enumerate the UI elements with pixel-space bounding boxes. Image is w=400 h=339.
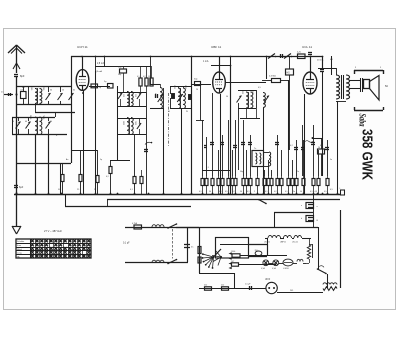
svg-text:b: b	[301, 218, 302, 220]
svg-text:UBF11: UBF11	[280, 242, 286, 244]
svg-text:5n: 5n	[330, 159, 332, 161]
svg-text:a: a	[301, 205, 302, 207]
svg-text:0,1: 0,1	[130, 189, 133, 191]
svg-text:6k: 6k	[73, 90, 75, 92]
svg-text:4-20: 4-20	[297, 52, 301, 54]
svg-text:0,3 MΩ: 0,3 MΩ	[269, 76, 276, 78]
svg-text:5000: 5000	[184, 85, 186, 89]
svg-text:W: W	[186, 111, 188, 113]
svg-text:0,1: 0,1	[206, 167, 209, 169]
svg-text:50: 50	[300, 191, 302, 193]
svg-text:UCH 11: UCH 11	[77, 45, 88, 49]
svg-text:Tz: Tz	[254, 148, 256, 150]
svg-text:50: 50	[209, 191, 211, 193]
svg-text:Mittel: Mittel	[17, 248, 22, 251]
svg-text:50: 50	[12, 121, 14, 123]
svg-text:4,5: 4,5	[330, 189, 333, 191]
svg-text:0,1: 0,1	[22, 87, 25, 89]
svg-text:5p: 5p	[99, 87, 101, 89]
svg-text:358 GWK: 358 GWK	[359, 129, 375, 180]
svg-text:0,1 µF: 0,1 µF	[123, 243, 130, 245]
svg-text:4,5: 4,5	[258, 87, 261, 89]
svg-text:15: 15	[148, 76, 150, 78]
svg-text:0,1: 0,1	[265, 191, 268, 193]
svg-text:U 4050: U 4050	[283, 268, 289, 270]
svg-text:20: 20	[196, 89, 198, 91]
svg-text:An: An	[66, 158, 68, 161]
svg-text:40: 40	[25, 121, 27, 123]
svg-text:30p: 30p	[118, 74, 121, 76]
svg-text:4,5: 4,5	[225, 191, 228, 193]
svg-text:0,5: 0,5	[324, 191, 327, 193]
svg-text:0,1: 0,1	[320, 145, 323, 147]
svg-text:20: 20	[318, 147, 320, 149]
svg-text:200: 200	[42, 87, 44, 90]
svg-text:0,2: 0,2	[290, 145, 293, 147]
svg-text:0,75A: 0,75A	[132, 222, 138, 225]
svg-text:760: 760	[255, 250, 258, 252]
svg-text:212: 212	[221, 285, 224, 287]
svg-text:0,1: 0,1	[199, 191, 202, 193]
svg-text:1,5 µF: 1,5 µF	[245, 284, 251, 286]
svg-text:0,2: 0,2	[232, 191, 235, 193]
svg-text:50p: 50p	[240, 171, 243, 173]
svg-text:5000: 5000	[173, 85, 175, 89]
svg-text:27 V ~ 487 kHz: 27 V ~ 487 kHz	[44, 229, 63, 233]
svg-text:550: 550	[122, 94, 124, 97]
svg-text:250: 250	[134, 94, 136, 97]
svg-text:4,5: 4,5	[315, 191, 318, 193]
svg-text:30: 30	[50, 121, 52, 123]
svg-text:5Ω: 5Ω	[385, 86, 388, 88]
svg-text:1n: 1n	[293, 191, 295, 193]
svg-text:0,2: 0,2	[106, 176, 109, 178]
svg-text:8pF: 8pF	[20, 74, 25, 78]
svg-text:(3 mA: (3 mA	[96, 70, 102, 73]
svg-text:HS: HS	[287, 73, 291, 75]
svg-text:7800: 7800	[134, 121, 136, 125]
svg-text:UCL11: UCL11	[292, 242, 298, 244]
svg-text:50: 50	[240, 191, 242, 193]
svg-text:0,2: 0,2	[274, 191, 277, 193]
svg-text:1500: 1500	[231, 251, 235, 253]
svg-text:UBF 11: UBF 11	[211, 45, 222, 49]
svg-text:Kurz: Kurz	[17, 245, 21, 247]
svg-text:1 mA: 1 mA	[203, 60, 209, 63]
svg-text:0,1: 0,1	[285, 191, 288, 193]
svg-text:50: 50	[226, 96, 228, 98]
svg-text:15: 15	[62, 90, 64, 92]
svg-text:Schalter: Schalter	[17, 240, 25, 243]
svg-text:Lang: Lang	[17, 253, 21, 255]
svg-text:0,3: 0,3	[330, 59, 333, 61]
svg-text:2,8 mA: 2,8 mA	[97, 62, 105, 65]
svg-text:8µF: 8µF	[19, 186, 24, 189]
svg-text:1n: 1n	[297, 171, 299, 173]
svg-text:0,2: 0,2	[143, 76, 146, 78]
svg-text:UF/F: UF/F	[265, 279, 271, 281]
svg-text:0,1: 0,1	[247, 191, 250, 193]
svg-text:0,1: 0,1	[137, 76, 140, 78]
svg-text:0,1: 0,1	[310, 191, 313, 193]
svg-text:Saba: Saba	[358, 114, 368, 127]
svg-text:2: 2	[254, 191, 255, 193]
svg-text:3800: 3800	[122, 121, 124, 125]
svg-text:212: 212	[204, 285, 207, 287]
svg-text:30: 30	[50, 90, 52, 92]
svg-text:100: 100	[30, 87, 32, 90]
svg-text:UCL 11: UCL 11	[302, 45, 312, 49]
svg-text:0,1: 0,1	[230, 189, 233, 191]
svg-text:W: W	[168, 111, 170, 113]
svg-text:207: 207	[231, 261, 234, 263]
